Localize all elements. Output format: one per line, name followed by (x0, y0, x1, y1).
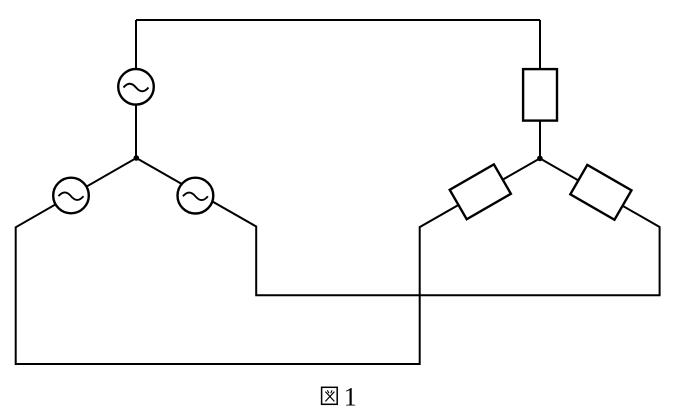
wire source phase-a vertical (through source Va) (135, 20, 137, 158)
load impedance Zb (left tilted rectangle) (450, 164, 511, 219)
svg-text:1: 1 (344, 382, 357, 411)
wire source phase-b branch, left outer loop to load phase-b (16, 158, 540, 364)
load impedance Zc (right tilted rectangle) (570, 165, 631, 220)
load impedance Za (vertical rectangle) (523, 69, 557, 121)
ac source Va (top) (118, 69, 154, 105)
node source neutral (junction dot) (134, 155, 140, 161)
node load neutral (junction dot) (537, 156, 543, 162)
wire load phase-a vertical (through load Za) (539, 20, 541, 158)
ac source Vc (lower right) (178, 178, 214, 214)
caption glyph 図 (drawn) (322, 387, 338, 404)
wire top bus from source top to load top (136, 19, 540, 21)
wire source phase-c branch, middle loop to load phase-c (136, 158, 659, 295)
ac source Vb (lower left) (53, 178, 89, 214)
